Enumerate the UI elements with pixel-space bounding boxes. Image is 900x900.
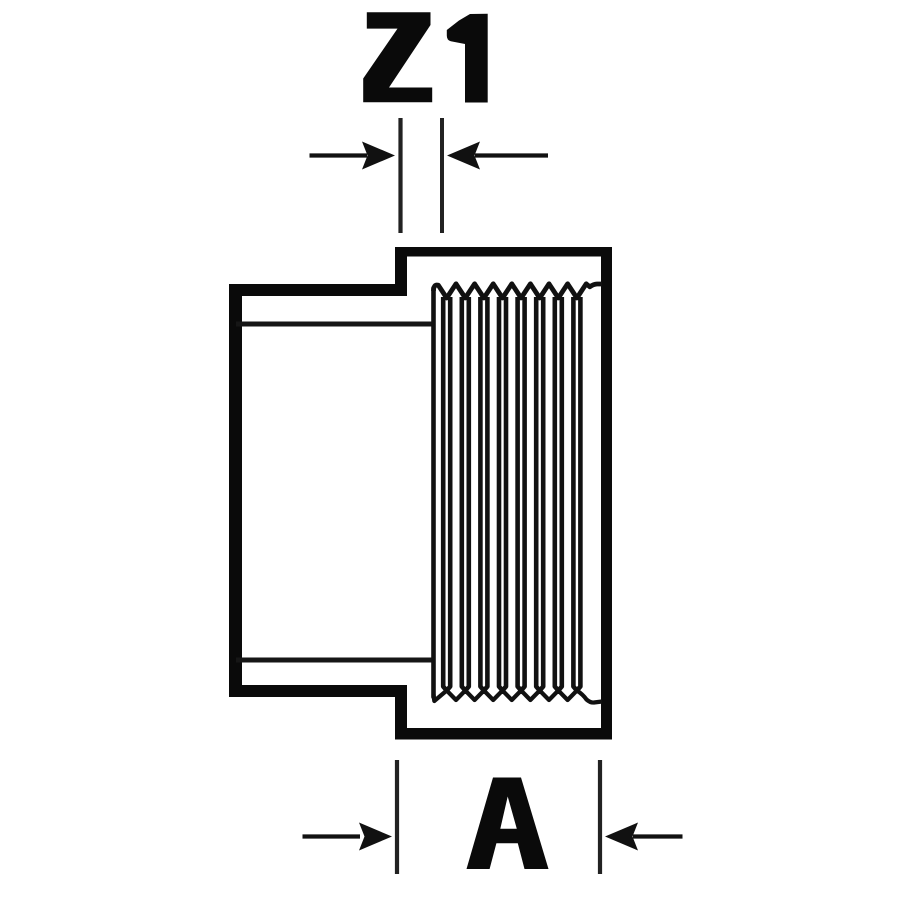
label A [467,778,549,870]
socket inner wall top line [236,322,433,327]
A left arrow [303,823,393,851]
socket inner wall bottom line [236,658,433,663]
threads left boundary [431,288,436,697]
threads bottom zigzag [434,691,603,703]
threads top crest zigzag [434,284,603,298]
fitting body outline [229,247,612,740]
extension line right of A dimension [598,760,602,874]
thread grooves (vertical slots) [443,297,580,691]
A right arrow [605,823,683,851]
extension line left of Z1 dimension [398,118,402,233]
label Z1 [363,12,432,102]
extension line left of A dimension [395,760,399,874]
Z1 right arrow [447,142,548,170]
Z1 left arrow [310,142,396,170]
extension line right of Z1 dimension [440,118,444,233]
